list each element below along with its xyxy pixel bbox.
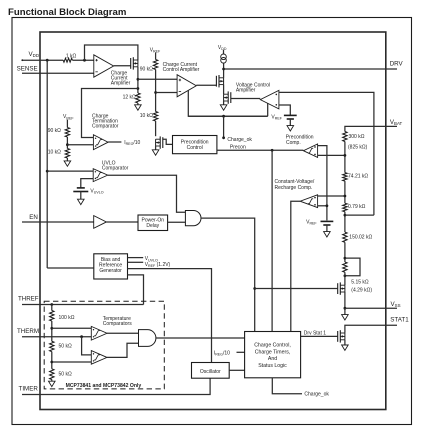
label VREF 1.2V (bias output) bbox=[145, 262, 171, 268]
node VSS junction bbox=[344, 307, 347, 310]
resistor 5.15 kOhm bbox=[343, 262, 347, 272]
label 0.79 kOhm bbox=[348, 204, 366, 210]
svg-text:EN: EN bbox=[29, 214, 38, 221]
transistor Q6 (STAT1 FET) bbox=[338, 330, 345, 342]
comparator U7 UVLO bbox=[93, 169, 108, 182]
comparator U5 Precondition bbox=[303, 144, 317, 157]
wire logic box Charge_ok output bbox=[272, 378, 302, 394]
wire THERM to comparator B bbox=[82, 337, 92, 355]
pin VBAT wire bbox=[345, 126, 397, 131]
wire mid divider down bbox=[155, 70, 157, 112]
svg-text:Recharge Comp.: Recharge Comp. bbox=[275, 185, 313, 191]
label 1 kOhm bbox=[66, 53, 77, 59]
wire feedback into U3 bbox=[267, 104, 269, 117]
node THERM junction bbox=[80, 335, 83, 338]
label UVLO Comparator bbox=[102, 160, 129, 171]
wire buffer to delay box bbox=[106, 221, 138, 223]
wire U6 bottom input bbox=[318, 205, 327, 207]
buffer EN bbox=[94, 216, 107, 229]
svg-text:STAT1: STAT1 bbox=[390, 316, 409, 323]
wire Q2 gate to precondition control bbox=[163, 139, 173, 144]
label VDD (top center) bbox=[218, 45, 227, 51]
svg-text:100 kΩ: 100 kΩ bbox=[59, 315, 75, 321]
wire Q1 source down bbox=[137, 67, 139, 93]
pin DRV wire bbox=[224, 68, 397, 70]
wire oscillator to logic box bbox=[229, 369, 244, 371]
box Bias and Reference Generator bbox=[94, 254, 128, 279]
current sink arrow below 12 kOhm bbox=[135, 103, 142, 110]
current sink arrow below Q2 bbox=[152, 146, 159, 155]
wire bypass to Q5 bbox=[344, 272, 346, 285]
node feedback junction bbox=[83, 59, 86, 62]
label 74.21 kOhm bbox=[348, 174, 368, 180]
label Precondition Comp. bbox=[286, 134, 314, 146]
svg-text:10 kΩ: 10 kΩ bbox=[48, 150, 61, 156]
svg-text:90 kΩ: 90 kΩ bbox=[140, 66, 153, 72]
label IREG/10 (logic input) bbox=[214, 350, 230, 356]
wire UVLO output bbox=[108, 175, 186, 212]
label Charge Termination Comparator bbox=[92, 114, 119, 130]
resistor 300 kOhm bbox=[343, 132, 347, 142]
box Charge Control Charge Timers And Status Logic bbox=[245, 332, 301, 378]
label 300 kOhm bbox=[349, 134, 365, 140]
node bypass top bbox=[344, 257, 347, 260]
wire chain seg4 bbox=[344, 242, 346, 262]
svg-text:74.21 kΩ: 74.21 kΩ bbox=[348, 174, 368, 180]
svg-text:Oscillator: Oscillator bbox=[200, 369, 221, 375]
wire lower node horizontal bbox=[188, 115, 267, 117]
label 150.02 kOhm bbox=[349, 235, 372, 241]
ground arrow below cell 2 bbox=[324, 225, 331, 237]
svg-text:THREF: THREF bbox=[18, 296, 39, 303]
comparator U4 Charge Termination bbox=[93, 135, 108, 150]
label IREG/10 (U4 output) bbox=[124, 140, 140, 146]
wire UVLO input bbox=[47, 170, 93, 172]
label VUVLO (bias output) bbox=[145, 256, 158, 262]
svg-text:Amplifier: Amplifier bbox=[236, 87, 256, 93]
wire VREF tick bbox=[155, 53, 157, 60]
pin EN wire bbox=[22, 221, 94, 223]
node UVLO input junction bbox=[46, 170, 49, 173]
resistor 90 kOhm (mid) bbox=[153, 60, 157, 70]
wire 1k to amp input bbox=[72, 59, 93, 61]
pin DRV label bbox=[390, 60, 404, 67]
node DRV junction bbox=[222, 68, 225, 71]
resistor 1 kOhm (VDD sense) bbox=[63, 58, 72, 62]
resistor 100 kOhm bbox=[50, 311, 54, 322]
label VREF (mid divider) bbox=[150, 47, 161, 53]
wire U5 top input to VREF rail bbox=[318, 146, 327, 221]
wire G2 output to logic box bbox=[156, 337, 245, 339]
svg-text:Drv Stat 1: Drv Stat 1 bbox=[304, 331, 326, 337]
label VUVLO bbox=[90, 188, 103, 194]
wire bypass loop bbox=[345, 258, 360, 276]
resistor 12 kOhm bbox=[136, 93, 140, 103]
box Power-On Delay bbox=[138, 215, 168, 231]
svg-text:Comparator: Comparator bbox=[92, 124, 119, 130]
label 10 kOhm (mid) bbox=[140, 113, 153, 119]
svg-text:Precon: Precon bbox=[230, 144, 246, 150]
wire tap to U2 - input bbox=[156, 92, 178, 94]
pin STAT1 label bbox=[390, 316, 409, 323]
svg-text:TIMER: TIMER bbox=[19, 385, 39, 392]
IC boundary box bbox=[40, 32, 386, 410]
box Precondition Control bbox=[173, 136, 217, 154]
op-amp U2 Charge Current Control Amplifier bbox=[177, 75, 196, 97]
svg-text:(4.29 kΩ): (4.29 kΩ) bbox=[351, 288, 372, 294]
wire U4 output bbox=[108, 141, 121, 143]
node B junction bbox=[137, 87, 140, 90]
svg-text:MCP73841 and MCP73842 Only: MCP73841 and MCP73842 Only bbox=[66, 383, 142, 389]
pin THREF label bbox=[18, 296, 39, 303]
label 10 kOhm (left) bbox=[48, 150, 61, 156]
wire tap to U4 - input bbox=[67, 144, 93, 146]
pin VSS label bbox=[391, 301, 401, 308]
pin SENSE label bbox=[17, 65, 38, 72]
label MCP73841 and MCP73842 Only bbox=[66, 383, 142, 389]
wire tap2 to comparator B bbox=[52, 361, 92, 363]
node THREF divider junction bbox=[50, 303, 53, 306]
svg-text:12 kΩ: 12 kΩ bbox=[123, 95, 136, 101]
resistor 74.21 kOhm bbox=[343, 173, 347, 182]
wire Precon net bbox=[217, 149, 304, 151]
svg-text:Comparators: Comparators bbox=[103, 321, 132, 327]
label VREF (left divider) bbox=[63, 114, 74, 120]
ground arrow below cell 1 bbox=[287, 119, 294, 131]
wire G1 to Q5 gate bbox=[255, 288, 338, 290]
svg-text:Control Amplifier: Control Amplifier bbox=[163, 67, 200, 73]
wire U6 top input to divider tap bbox=[318, 195, 345, 197]
pin THERM wire bbox=[22, 336, 91, 338]
node lower junction bbox=[222, 115, 225, 118]
pin VDD label bbox=[29, 51, 39, 58]
wire left divider bbox=[66, 137, 68, 149]
label 90 kOhm (mid) bbox=[140, 66, 153, 72]
svg-text:0.79 kΩ: 0.79 kΩ bbox=[348, 204, 366, 210]
transistor Q2 (IREG/10 FET) bbox=[156, 136, 163, 148]
wire chain seg1 bbox=[344, 142, 346, 173]
label Temperature Comparators bbox=[103, 316, 132, 327]
node chain tap 1 bbox=[344, 154, 347, 157]
svg-text:DRV: DRV bbox=[390, 60, 404, 67]
svg-text:10 kΩ: 10 kΩ bbox=[140, 113, 153, 119]
pin VBAT label bbox=[390, 119, 403, 126]
resistor 90 kOhm (left) bbox=[65, 128, 69, 138]
label (4.29 kOhm) bbox=[351, 288, 372, 294]
pin EN label bbox=[29, 214, 38, 221]
comparator U9 temperature B bbox=[91, 351, 107, 365]
wire U9 output to G2 bbox=[107, 343, 139, 357]
wire bias to THREF bbox=[128, 275, 144, 305]
resistor 0.79 kOhm bbox=[343, 203, 347, 212]
node therm tap 1 bbox=[50, 327, 53, 330]
wire feedback loop over amp bbox=[85, 45, 138, 60]
wire G1 output bbox=[201, 218, 255, 331]
wire IREG/10 stub bbox=[237, 351, 245, 353]
label 50 kOhm lower bbox=[59, 371, 72, 377]
wire current source to Q3 bbox=[223, 63, 225, 78]
pin TIMER wire bbox=[22, 378, 210, 394]
battery VREF cell 2 bbox=[321, 221, 334, 225]
svg-text:1 kΩ: 1 kΩ bbox=[66, 53, 77, 59]
node Q1 drain node A bbox=[137, 78, 140, 81]
resistor 50 kOhm lower bbox=[50, 369, 54, 380]
label 12 kOhm bbox=[123, 95, 136, 101]
svg-text:Charge_ok: Charge_ok bbox=[304, 392, 329, 398]
wire U6 output to logic bbox=[291, 201, 300, 331]
wire bias stub VREF bbox=[128, 261, 144, 263]
node mid divider tap bbox=[154, 91, 157, 94]
wire chain seg2 bbox=[344, 181, 346, 203]
wire chain seg3 bbox=[344, 212, 346, 232]
label (825 kOhm) bbox=[348, 144, 368, 150]
wire U1 output to Q1 gate bbox=[114, 65, 131, 67]
wire bias to oscillator bbox=[128, 269, 212, 363]
wire UVLO - input to VUVLO bbox=[81, 179, 93, 188]
wire to Charge_ok stub bbox=[222, 116, 225, 139]
battery VUVLO cell bbox=[73, 188, 88, 192]
wire tap3 to U3 feedback bbox=[345, 214, 374, 216]
AND gate G2 (temperature) bbox=[139, 330, 156, 347]
transistor Q3 (drive FET upper) bbox=[216, 75, 223, 87]
pin SENSE wire bbox=[22, 72, 94, 74]
wire U8 output to G2 bbox=[107, 332, 139, 334]
svg-text:Amplifier: Amplifier bbox=[111, 81, 131, 87]
wire delay box to AND gate bbox=[168, 221, 186, 223]
label 90 kOhm (left) bbox=[48, 128, 61, 134]
wire Q3 to Q4 bbox=[223, 85, 225, 95]
wire therm chain seg1 bbox=[51, 321, 53, 341]
wire Q4 gate to U3 output bbox=[231, 98, 260, 100]
ground arrow below VSS node bbox=[342, 308, 349, 320]
node G1 branch bbox=[253, 287, 256, 290]
wire 10k to Q2 bbox=[155, 121, 157, 136]
pin VSS wire bbox=[345, 307, 397, 309]
transistor Q1 (sense FET) bbox=[131, 57, 138, 69]
box Oscillator bbox=[192, 363, 230, 379]
svg-text:Control: Control bbox=[187, 145, 203, 151]
net label Precon bbox=[230, 144, 246, 150]
label 50 kOhm upper bbox=[59, 344, 72, 350]
node therm tap 2 bbox=[50, 361, 53, 364]
ground arrow below VUVLO bbox=[78, 192, 85, 205]
current sink arrow below Q4 bbox=[220, 101, 227, 110]
net label Drv Stat 1 bbox=[304, 331, 326, 337]
pin TIMER label bbox=[19, 385, 39, 392]
current source symbol from VDD bbox=[221, 50, 227, 63]
AND gate G1 bbox=[185, 211, 201, 226]
svg-text:Comparator: Comparator bbox=[102, 165, 129, 171]
node Precon junction bbox=[271, 149, 274, 152]
wire therm chain seg2 bbox=[51, 352, 53, 369]
wire node B to termination comparator bbox=[82, 89, 138, 138]
resistor 50 kOhm upper bbox=[50, 341, 54, 351]
wire VDD rail vertical bbox=[46, 60, 48, 268]
wire node A to U2 + input bbox=[138, 78, 177, 80]
svg-text:300 kΩ: 300 kΩ bbox=[349, 134, 365, 140]
node bypass bottom bbox=[344, 274, 347, 277]
svg-text:50 kΩ: 50 kΩ bbox=[59, 344, 72, 350]
label Constant-Voltage Recharge Comp. bbox=[275, 179, 315, 191]
label Charge Current Control Amplifier bbox=[163, 62, 200, 73]
svg-text:THERM: THERM bbox=[17, 328, 39, 335]
wire U2 feedback down bbox=[188, 90, 267, 116]
resistor 150.02 kOhm bbox=[343, 232, 347, 242]
node chain tap 2 bbox=[344, 195, 347, 198]
svg-text:And: And bbox=[268, 356, 277, 362]
label VREF (cell 2) bbox=[306, 220, 317, 226]
transistor Q4 (drive FET lower) bbox=[224, 91, 231, 103]
wire Q5 source to VSS node bbox=[344, 292, 346, 308]
wire VREF tick left bbox=[66, 120, 68, 128]
net label Charge_ok (upper) bbox=[227, 137, 252, 143]
node chain tap 3 bbox=[344, 214, 347, 217]
op-amp U3 Voltage Control Amplifier bbox=[260, 90, 279, 109]
pin THERM label bbox=[17, 328, 39, 335]
svg-text:Charge Timers,: Charge Timers, bbox=[255, 349, 290, 355]
svg-text:Comp.: Comp. bbox=[286, 140, 301, 146]
wire VDD rail into bias box bbox=[47, 267, 94, 269]
svg-text:Charge Control,: Charge Control, bbox=[254, 343, 291, 349]
current sink arrow below therm chain bbox=[49, 380, 56, 387]
label 100 kOhm bbox=[59, 315, 75, 321]
svg-text:Generator: Generator bbox=[99, 268, 122, 274]
wire Drv Stat 1 bbox=[301, 335, 338, 337]
label VREF (cell 1) bbox=[271, 114, 282, 120]
wire U3 top input to divider bbox=[279, 92, 374, 215]
ground arrow below Q6 bbox=[342, 340, 349, 351]
resistor 10 kOhm (mid) bbox=[153, 112, 157, 122]
label Voltage Control Amplifier bbox=[236, 82, 270, 93]
comparator U6 Constant-Voltage/Recharge bbox=[300, 195, 318, 208]
svg-text:SENSE: SENSE bbox=[17, 65, 38, 72]
dashed box MCP73841/42 only bbox=[44, 301, 164, 389]
label Charge Current Amplifier bbox=[111, 70, 131, 86]
svg-text:Functional Block Diagram: Functional Block Diagram bbox=[8, 7, 126, 18]
title: Functional Block Diagram bbox=[8, 7, 126, 18]
wire bias stub VUVLO bbox=[128, 257, 144, 259]
wire U3 bottom input to VREF cell bbox=[279, 105, 290, 115]
battery VREF cell 1 bbox=[284, 115, 297, 119]
current sink arrow below 10 kOhm left bbox=[64, 158, 71, 166]
svg-text:90 kΩ: 90 kΩ bbox=[48, 128, 61, 134]
wire tap1 to comparator A bbox=[52, 327, 92, 329]
svg-text:Delay: Delay bbox=[146, 223, 159, 229]
pin THREF wire bbox=[22, 304, 144, 306]
label 5.15 kOhm bbox=[351, 279, 369, 285]
pin VDD wire bbox=[21, 59, 63, 61]
pin STAT1 wire bbox=[345, 325, 397, 333]
net label Charge_ok (bottom) bbox=[304, 392, 329, 398]
transistor Q5 (timer-set bypass FET) bbox=[338, 282, 345, 294]
svg-text:150.02 kΩ: 150.02 kΩ bbox=[349, 235, 372, 241]
wire Precon to logic box bbox=[271, 150, 273, 331]
svg-text:(825 kΩ): (825 kΩ) bbox=[348, 144, 368, 150]
node VREF rail junction bbox=[326, 204, 329, 207]
node left divider tap bbox=[66, 143, 69, 146]
svg-text:Status Logic: Status Logic bbox=[258, 363, 287, 369]
svg-text:50 kΩ: 50 kΩ bbox=[59, 371, 72, 377]
op-amp U1 Charge Current Amplifier bbox=[94, 55, 114, 77]
svg-text:Charge_ok: Charge_ok bbox=[227, 137, 252, 143]
svg-text:5.15 kΩ: 5.15 kΩ bbox=[351, 279, 369, 285]
comparator U8 temperature A bbox=[91, 326, 107, 340]
resistor 10 kOhm (left) bbox=[65, 149, 69, 159]
wire U5 bottom input to divider bbox=[318, 154, 345, 156]
node VDD rail junction bbox=[46, 59, 49, 62]
wire U2 output to Q3 gate bbox=[196, 84, 216, 86]
wire therm chain top bbox=[51, 305, 53, 311]
